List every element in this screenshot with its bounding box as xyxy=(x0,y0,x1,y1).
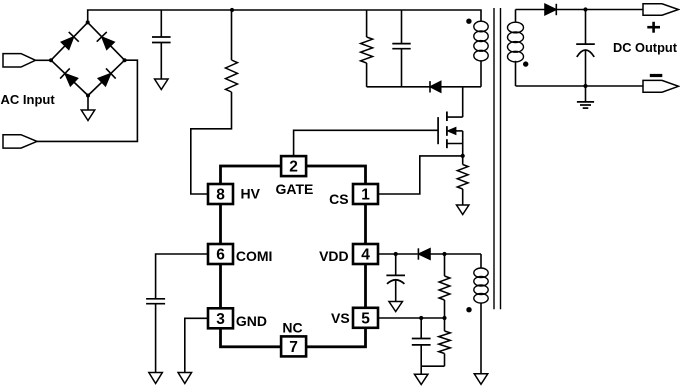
svg-text:GATE: GATE xyxy=(276,181,314,197)
svg-text:5: 5 xyxy=(361,310,370,327)
svg-text:4: 4 xyxy=(361,247,370,264)
svg-text:7: 7 xyxy=(289,339,298,356)
svg-text:NC: NC xyxy=(282,320,302,336)
svg-text:DC Output: DC Output xyxy=(613,40,678,55)
svg-text:1: 1 xyxy=(361,187,370,204)
svg-text:6: 6 xyxy=(216,247,225,264)
svg-text:GND: GND xyxy=(236,313,267,329)
svg-text:CS: CS xyxy=(329,191,348,207)
svg-text:COMI: COMI xyxy=(236,248,273,264)
svg-text:3: 3 xyxy=(216,311,225,328)
svg-text:8: 8 xyxy=(216,187,225,204)
svg-text:VDD: VDD xyxy=(319,248,349,264)
svg-text:AC Input: AC Input xyxy=(1,92,56,107)
svg-text:HV: HV xyxy=(241,186,261,202)
svg-text:2: 2 xyxy=(289,159,298,176)
svg-text:VS: VS xyxy=(331,310,350,326)
